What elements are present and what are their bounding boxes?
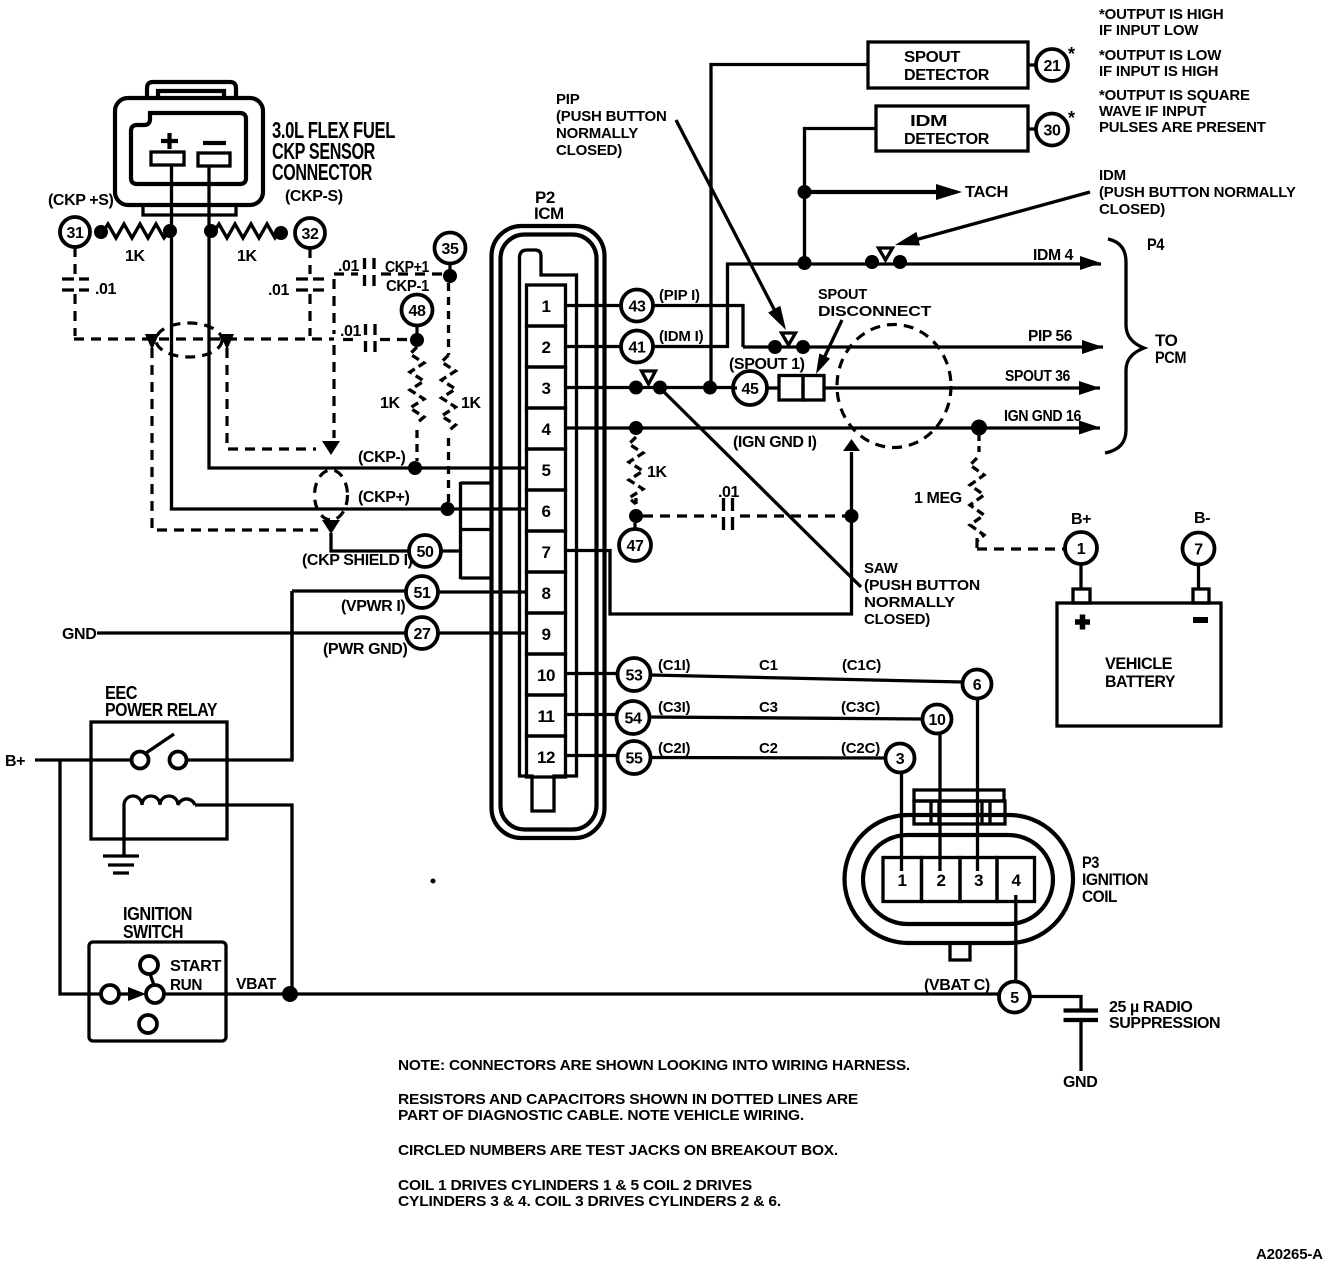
svg-text:27: 27 <box>414 626 431 643</box>
svg-text:1K: 1K <box>380 395 400 412</box>
svg-text:VBAT: VBAT <box>236 976 277 993</box>
svg-text:10: 10 <box>537 666 555 685</box>
svg-text:B+: B+ <box>1071 511 1091 528</box>
svg-text:(CKP-): (CKP-) <box>358 449 405 466</box>
svg-text:.01: .01 <box>718 484 740 501</box>
svg-text:CIRCLED NUMBERS ARE TEST JACKS: CIRCLED NUMBERS ARE TEST JACKS ON BREAKO… <box>398 1142 838 1159</box>
svg-text:(IGN GND I): (IGN GND I) <box>733 434 817 451</box>
svg-text:PART OF DIAGNOSTIC CABLE. NOTE: PART OF DIAGNOSTIC CABLE. NOTE VEHICLE W… <box>398 1107 804 1124</box>
svg-text:31: 31 <box>67 225 84 242</box>
svg-text:CLOSED): CLOSED) <box>556 142 622 159</box>
svg-text:1: 1 <box>1077 541 1086 558</box>
svg-text:(C3C): (C3C) <box>841 699 880 716</box>
svg-text:.01: .01 <box>268 282 290 299</box>
svg-text:GND: GND <box>1063 1074 1097 1091</box>
svg-text:NOTE: CONNECTORS ARE SHOWN LOO: NOTE: CONNECTORS ARE SHOWN LOOKING INTO … <box>398 1057 910 1074</box>
svg-text:53: 53 <box>626 668 643 685</box>
svg-text:NORMALLY: NORMALLY <box>556 125 638 142</box>
svg-text:.01: .01 <box>338 258 360 275</box>
svg-text:COIL: COIL <box>1082 887 1117 906</box>
svg-text:IDM: IDM <box>910 113 947 130</box>
svg-text:IDM 4: IDM 4 <box>1033 247 1073 264</box>
svg-text:(C1C): (C1C) <box>842 657 881 674</box>
svg-text:3: 3 <box>974 871 983 890</box>
svg-text:(IDM I): (IDM I) <box>659 328 704 345</box>
svg-text:.01: .01 <box>95 281 117 298</box>
svg-text:1K: 1K <box>461 395 481 412</box>
svg-text:1K: 1K <box>647 464 667 481</box>
svg-text:IF INPUT IS HIGH: IF INPUT IS HIGH <box>1099 63 1218 80</box>
svg-text:(C3I): (C3I) <box>658 699 691 716</box>
svg-text:CKP+1: CKP+1 <box>385 259 429 276</box>
svg-text:1: 1 <box>898 871 907 890</box>
svg-text:47: 47 <box>627 538 644 555</box>
svg-text:(PUSH BUTTON: (PUSH BUTTON <box>864 577 980 594</box>
svg-text:1K: 1K <box>237 248 257 265</box>
svg-text:10: 10 <box>929 712 946 729</box>
svg-text:(PUSH BUTTON NORMALLY: (PUSH BUTTON NORMALLY <box>1099 184 1296 201</box>
svg-text:(C2I): (C2I) <box>658 740 691 757</box>
svg-text:PIP 56: PIP 56 <box>1028 328 1072 345</box>
svg-text:35: 35 <box>442 241 459 258</box>
svg-text:B+: B+ <box>5 753 25 770</box>
svg-text:2: 2 <box>542 338 551 357</box>
svg-text:48: 48 <box>409 303 426 320</box>
svg-text:4: 4 <box>542 420 552 439</box>
svg-text:CKP-1: CKP-1 <box>386 278 429 295</box>
svg-text:PCM: PCM <box>1155 348 1186 367</box>
svg-text:DISCONNECT: DISCONNECT <box>818 303 931 320</box>
svg-text:START: START <box>170 958 222 975</box>
svg-text:*OUTPUT IS LOW: *OUTPUT IS LOW <box>1099 47 1222 64</box>
svg-text:41: 41 <box>629 340 646 357</box>
svg-text:(CKP+): (CKP+) <box>358 489 409 506</box>
svg-text:6: 6 <box>542 502 551 521</box>
svg-text:POWER RELAY: POWER RELAY <box>105 700 217 720</box>
svg-text:7: 7 <box>1194 542 1203 559</box>
svg-text:IDM: IDM <box>1099 167 1126 184</box>
svg-text:CONNECTOR: CONNECTOR <box>272 159 373 185</box>
svg-text:SPOUT: SPOUT <box>818 286 867 303</box>
svg-text:SWITCH: SWITCH <box>123 922 183 942</box>
svg-text:P4: P4 <box>1147 235 1165 254</box>
svg-text:*OUTPUT IS SQUARE: *OUTPUT IS SQUARE <box>1099 87 1250 104</box>
svg-text:(PWR GND): (PWR GND) <box>323 641 407 658</box>
svg-text:55: 55 <box>626 751 643 768</box>
svg-text:CLOSED): CLOSED) <box>1099 201 1165 218</box>
svg-text:PIP: PIP <box>556 91 580 108</box>
svg-text:PULSES ARE PRESENT: PULSES ARE PRESENT <box>1099 119 1266 136</box>
svg-text:(VPWR I): (VPWR I) <box>341 598 405 615</box>
svg-text:*: * <box>1068 108 1075 128</box>
svg-text:IF INPUT LOW: IF INPUT LOW <box>1099 22 1199 39</box>
svg-text:TACH: TACH <box>965 184 1008 201</box>
svg-text:ICM: ICM <box>534 204 564 223</box>
svg-text:*OUTPUT IS HIGH: *OUTPUT IS HIGH <box>1099 6 1224 23</box>
svg-text:30: 30 <box>1044 123 1061 140</box>
svg-text:GND: GND <box>62 626 96 643</box>
svg-text:4: 4 <box>1012 871 1022 890</box>
svg-text:12: 12 <box>537 748 555 767</box>
svg-text:1K: 1K <box>125 248 145 265</box>
svg-text:50: 50 <box>417 544 434 561</box>
svg-text:11: 11 <box>538 707 555 726</box>
svg-text:A20265-A: A20265-A <box>1256 1246 1323 1263</box>
svg-text:CYLINDERS 3 & 4. COIL 3 DRIVES: CYLINDERS 3 & 4. COIL 3 DRIVES CYLINDERS… <box>398 1193 781 1210</box>
svg-text:WAVE IF INPUT: WAVE IF INPUT <box>1099 103 1206 120</box>
svg-text:CLOSED): CLOSED) <box>864 611 930 628</box>
svg-text:5: 5 <box>542 461 551 480</box>
svg-text:(CKP +S): (CKP +S) <box>48 192 113 209</box>
svg-text:SUPPRESSION: SUPPRESSION <box>1109 1015 1220 1032</box>
svg-text:SPOUT 36: SPOUT 36 <box>1005 368 1070 385</box>
svg-text:BATTERY: BATTERY <box>1105 672 1176 691</box>
svg-text:21: 21 <box>1044 58 1061 75</box>
svg-text:5: 5 <box>1010 990 1019 1007</box>
svg-text:(CKP SHIELD I): (CKP SHIELD I) <box>302 552 413 569</box>
svg-text:43: 43 <box>629 299 646 316</box>
svg-text:RESISTORS AND CAPACITORS SHOWN: RESISTORS AND CAPACITORS SHOWN IN DOTTED… <box>398 1091 858 1108</box>
svg-text:1: 1 <box>542 297 551 316</box>
svg-text:2: 2 <box>937 871 946 890</box>
svg-text:3: 3 <box>896 751 905 768</box>
svg-text:(SPOUT 1): (SPOUT 1) <box>729 356 805 373</box>
svg-text:7: 7 <box>542 543 551 562</box>
svg-text:.01: .01 <box>340 323 362 340</box>
svg-text:SAW: SAW <box>864 560 899 577</box>
svg-text:25 µ RADIO: 25 µ RADIO <box>1109 999 1192 1016</box>
svg-text:45: 45 <box>742 381 759 398</box>
svg-text:(PIP I): (PIP I) <box>659 287 700 304</box>
svg-text:32: 32 <box>302 226 319 243</box>
svg-text:3: 3 <box>542 379 551 398</box>
svg-text:RUN: RUN <box>170 977 202 994</box>
svg-text:(C2C): (C2C) <box>841 740 880 757</box>
svg-text:(CKP-S): (CKP-S) <box>285 188 343 205</box>
svg-text:51: 51 <box>414 585 431 602</box>
svg-text:C3: C3 <box>759 699 778 716</box>
svg-text:B-: B- <box>1194 510 1210 527</box>
svg-text:(VBAT C): (VBAT C) <box>924 977 990 994</box>
svg-text:1 MEG: 1 MEG <box>914 490 962 507</box>
svg-text:NORMALLY: NORMALLY <box>864 594 955 611</box>
svg-text:9: 9 <box>542 625 551 644</box>
svg-text:VEHICLE: VEHICLE <box>1105 654 1172 673</box>
svg-text:C2: C2 <box>759 740 778 757</box>
svg-text:IGN GND 16: IGN GND 16 <box>1004 408 1081 425</box>
svg-text:8: 8 <box>542 584 551 603</box>
svg-text:6: 6 <box>973 677 982 694</box>
svg-text:(C1I): (C1I) <box>658 657 691 674</box>
svg-text:IGNITION: IGNITION <box>123 904 192 924</box>
svg-text:*: * <box>1068 44 1075 64</box>
svg-text:C1: C1 <box>759 657 778 674</box>
svg-text:SPOUT: SPOUT <box>904 49 961 66</box>
svg-text:(PUSH BUTTON: (PUSH BUTTON <box>556 108 667 125</box>
svg-text:DETECTOR: DETECTOR <box>904 131 990 148</box>
svg-text:54: 54 <box>625 711 642 728</box>
svg-text:DETECTOR: DETECTOR <box>904 67 990 84</box>
svg-text:COIL 1 DRIVES CYLINDERS 1 & 5: COIL 1 DRIVES CYLINDERS 1 & 5 COIL 2 DRI… <box>398 1177 752 1194</box>
